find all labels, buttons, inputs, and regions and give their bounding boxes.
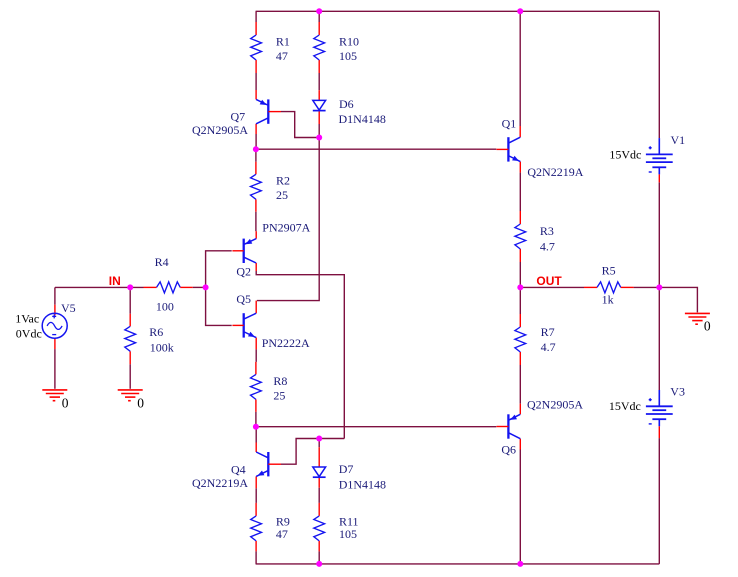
svg-text:R1: R1 xyxy=(276,35,290,49)
wire Q7 base jog to D6 node xyxy=(281,112,319,138)
junction OUT node xyxy=(517,284,523,290)
wire Q2 collector to Q4 base column xyxy=(256,263,344,439)
wire R1 bottom to Q7 emitter xyxy=(255,60,257,99)
svg-text:Q2N2219A: Q2N2219A xyxy=(192,476,248,490)
wire OUT down to R7 xyxy=(519,287,521,327)
wire Q4 collector up to node xyxy=(255,427,257,452)
wire V1 plus to rail xyxy=(658,11,660,138)
svg-text:D1N4148: D1N4148 xyxy=(339,112,386,126)
svg-text:R10: R10 xyxy=(339,35,359,49)
ground 0 at V5 xyxy=(42,390,69,411)
svg-text:R3: R3 xyxy=(540,224,554,238)
svg-text:15Vdc: 15Vdc xyxy=(609,399,641,413)
wire Q7 collector down xyxy=(255,124,257,149)
svg-text:Q2N2905A: Q2N2905A xyxy=(192,123,248,137)
wire IN node to Q2 base xyxy=(206,251,232,288)
wire node to Q1 base xyxy=(256,148,496,150)
svg-text:15Vdc: 15Vdc xyxy=(609,147,641,161)
junction rail R10 xyxy=(316,8,322,14)
resistor R1 xyxy=(251,35,290,64)
wire R10 bottom to D6 anode xyxy=(318,60,320,100)
junction D6 cathode node xyxy=(316,135,322,141)
wire R6 top to IN xyxy=(129,287,131,326)
wire R9 bottom to rail xyxy=(255,541,257,564)
wire R3 bottom to OUT xyxy=(519,249,521,287)
svg-text:47: 47 xyxy=(276,527,288,541)
node IN label xyxy=(109,274,121,288)
wire Q6 collector to rail xyxy=(519,439,521,564)
wire node to Q6 base xyxy=(256,426,497,428)
junction R8 Q4 node xyxy=(253,424,259,430)
svg-text:R7: R7 xyxy=(541,325,555,339)
junction Q7 collector node xyxy=(253,146,259,152)
wire R6 bottom to ground xyxy=(129,351,131,389)
diode D6 xyxy=(313,97,386,126)
wire V3 minus to bottom rail xyxy=(658,438,660,564)
wire D7 cathode to R11 xyxy=(318,477,320,516)
resistor R4 xyxy=(144,255,193,313)
wire OUT net xyxy=(520,286,584,288)
svg-text:4.7: 4.7 xyxy=(541,340,556,354)
wire D6 node down to Q5 collector xyxy=(256,138,319,314)
svg-text:Q5: Q5 xyxy=(236,292,251,306)
svg-text:V3: V3 xyxy=(670,384,685,398)
svg-text:25: 25 xyxy=(276,188,288,202)
svg-text:R5: R5 xyxy=(602,264,616,278)
resistor R7 xyxy=(515,325,556,354)
wire top supply rail xyxy=(256,10,660,12)
svg-text:PN2907A: PN2907A xyxy=(262,221,310,235)
svg-text:1k: 1k xyxy=(602,293,614,307)
svg-text:Q2N2219A: Q2N2219A xyxy=(527,165,583,179)
wire Q1 emitter to R3 xyxy=(519,162,521,224)
diode D7 xyxy=(313,462,386,492)
svg-text:0Vdc: 0Vdc xyxy=(16,326,42,340)
junction D7 anode node xyxy=(316,436,322,442)
ground 0 at R6 xyxy=(118,390,145,411)
wire Q5 emitter to R8 xyxy=(255,338,257,375)
wire Q4 base jog to D7 node xyxy=(281,439,344,465)
wire D7 node down to anode xyxy=(318,439,320,468)
svg-text:Q2N2905A: Q2N2905A xyxy=(527,398,583,412)
svg-text:47: 47 xyxy=(276,49,288,63)
resistor R9 xyxy=(251,515,290,542)
wire V5 plus up to IN xyxy=(54,287,56,315)
svg-text:D7: D7 xyxy=(339,462,354,476)
wire R4 right to IN node xyxy=(193,286,206,288)
svg-text:V1: V1 xyxy=(671,133,686,147)
transistor Q2 xyxy=(232,221,310,279)
voltage source V5 1Vac xyxy=(15,301,75,341)
resistor R5 xyxy=(584,264,634,307)
wire V1 minus down to node xyxy=(658,182,660,287)
node OUT label xyxy=(536,274,562,288)
junction rail Q1 collector xyxy=(517,8,523,14)
wire V5 minus to ground xyxy=(54,338,56,389)
resistor R8 xyxy=(251,374,288,402)
wire R5 right to supply node xyxy=(634,286,660,288)
resistor R3 xyxy=(515,224,555,254)
transistor Q7 xyxy=(192,99,281,136)
wire R1 top pin to rail xyxy=(255,11,257,35)
svg-text:Q7: Q7 xyxy=(231,110,246,124)
svg-text:Q1: Q1 xyxy=(502,117,517,131)
svg-text:D6: D6 xyxy=(339,97,354,111)
svg-text:105: 105 xyxy=(339,49,357,63)
voltage source V1 15Vdc xyxy=(609,133,685,182)
svg-text:Q2: Q2 xyxy=(236,265,251,279)
resistor R10 xyxy=(314,35,359,64)
svg-text:IN: IN xyxy=(109,274,121,288)
wire D6 cathode to node xyxy=(318,111,320,137)
transistor Q6 xyxy=(497,398,584,457)
svg-text:100: 100 xyxy=(156,299,174,313)
svg-text:4.7: 4.7 xyxy=(540,239,555,253)
wire Q4 emitter to R9 xyxy=(255,476,257,516)
wire R10 top pin to rail xyxy=(318,11,320,35)
resistor R11 xyxy=(314,515,359,542)
junction IN at R6 xyxy=(127,284,133,290)
svg-text:Q4: Q4 xyxy=(231,462,246,476)
svg-text:PN2222A: PN2222A xyxy=(262,336,310,350)
wire node down to V3 plus xyxy=(658,287,660,390)
svg-text:OUT: OUT xyxy=(536,274,562,288)
junction Q6 collector rail xyxy=(517,561,523,567)
transistor Q5 xyxy=(232,292,310,350)
wire R7 bottom to Q6 emitter xyxy=(519,352,521,414)
svg-text:Q6: Q6 xyxy=(501,442,516,456)
wire bottom rail xyxy=(256,563,660,565)
svg-text:R8: R8 xyxy=(273,374,287,388)
svg-text:0: 0 xyxy=(62,396,69,411)
svg-text:0: 0 xyxy=(704,319,711,334)
wire R2 bottom to Q2 emitter xyxy=(255,199,257,238)
svg-text:1Vac: 1Vac xyxy=(15,312,39,326)
svg-text:100k: 100k xyxy=(150,340,174,354)
wire supply node to ground xyxy=(659,287,697,312)
svg-text:105: 105 xyxy=(339,527,357,541)
transistor Q1 xyxy=(497,117,584,179)
wire R11 bottom to rail xyxy=(318,541,320,564)
junction R11 bottom rail xyxy=(316,561,322,567)
wire IN net xyxy=(55,286,144,288)
svg-text:D1N4148: D1N4148 xyxy=(339,478,386,492)
wire node down to R2 xyxy=(255,149,257,174)
wire IN node to Q5 base xyxy=(206,287,232,325)
svg-text:0: 0 xyxy=(137,396,144,411)
svg-text:25: 25 xyxy=(273,388,285,402)
resistor R2 xyxy=(251,173,291,202)
voltage source V3 15Vdc xyxy=(609,384,685,438)
transistor Q4 xyxy=(192,452,281,490)
wire Q1 collector to rail xyxy=(519,11,521,137)
resistor R6 xyxy=(125,325,174,355)
junction supply mid node xyxy=(656,284,662,290)
svg-text:R2: R2 xyxy=(276,173,290,187)
svg-text:V5: V5 xyxy=(61,301,76,315)
junction IN at R4 xyxy=(203,284,209,290)
ground 0 at output xyxy=(685,313,711,333)
svg-text:R4: R4 xyxy=(155,255,169,269)
svg-text:R6: R6 xyxy=(149,325,163,339)
wire R8 bottom to node xyxy=(255,399,257,426)
